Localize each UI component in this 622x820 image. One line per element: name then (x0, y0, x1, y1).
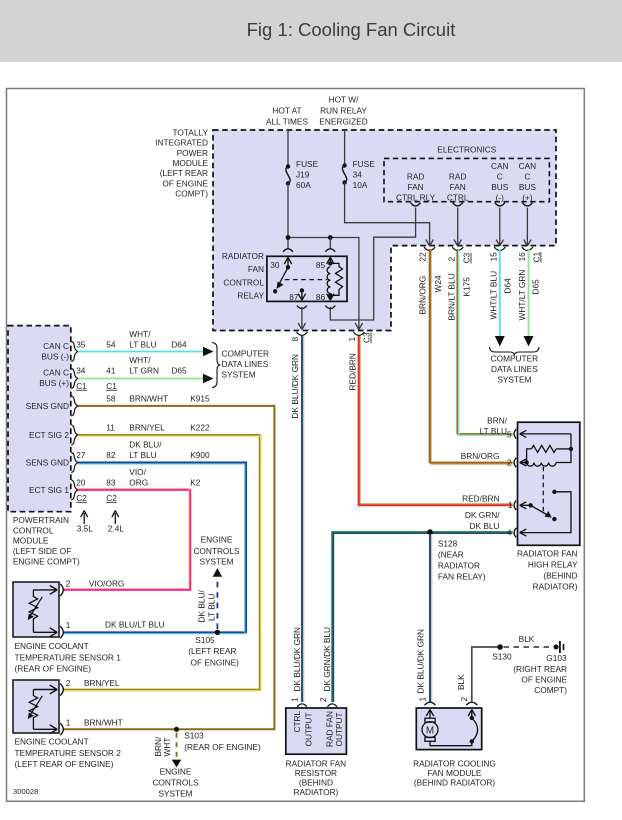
svg-text:1: 1 (290, 697, 300, 702)
svg-text:K2: K2 (190, 477, 201, 487)
svg-text:RADIATOR): RADIATOR) (533, 582, 578, 592)
arrow at exit 1 C3 (355, 322, 362, 330)
svg-text:(BEHIND: (BEHIND (299, 778, 333, 788)
svg-text:LT BLU: LT BLU (480, 426, 507, 436)
svg-text:K900: K900 (190, 450, 210, 460)
relay resistor (parallel) (328, 263, 342, 297)
svg-text:(LEFT REAR: (LEFT REAR (188, 646, 236, 656)
wire BRN/WHT K915 to sensor 2 pin 1 (63, 406, 274, 729)
svg-text:ENGINE: ENGINE (201, 535, 233, 545)
svg-text:58: 58 (106, 393, 116, 403)
svg-text:SYSTEM: SYSTEM (199, 557, 233, 567)
svg-text:DK BLU/DK GRN: DK BLU/DK GRN (292, 627, 302, 692)
brace to computer data lines (left) (212, 343, 221, 388)
svg-text:2.4L: 2.4L (108, 524, 125, 534)
svg-text:DK GRN/DK BLU: DK GRN/DK BLU (322, 627, 332, 692)
svg-text:54: 54 (106, 339, 116, 349)
high relay pin 2 (461, 451, 527, 468)
switch arm 30 (273, 265, 290, 293)
exit labels 8 / 1 C3 (290, 332, 372, 343)
svg-text:RADIATOR FAN: RADIATOR FAN (286, 758, 347, 768)
svg-text:20: 20 (76, 477, 86, 487)
svg-text:BRN/YEL: BRN/YEL (129, 422, 165, 432)
svg-text:(BEHIND RADIATOR): (BEHIND RADIATOR) (414, 778, 496, 788)
high relay contact to pin 4 (520, 490, 571, 533)
PCM pin name labels (26, 341, 70, 495)
wire: CAN C BUS (+) to exit 16 (526, 208, 528, 240)
sensor 1 label (15, 641, 122, 674)
brace to computer data lines (right) (490, 347, 540, 356)
svg-text:82: 82 (106, 450, 116, 460)
sensor 2 thermistor (28, 690, 43, 730)
wire BRN/ORG W24 to high relay pin 2 (430, 249, 513, 464)
svg-text:CTRL: CTRL (292, 710, 302, 732)
svg-text:INTEGRATED: INTEGRATED (155, 138, 208, 148)
wire RED/BRN from exit 1 C3 to high relay pin 1 (348, 336, 513, 505)
svg-text:COMPUTER: COMPUTER (491, 354, 538, 364)
wire WHT/LT BLU D64 (PCM CAN -) (78, 347, 214, 357)
svg-text:POWER: POWER (177, 148, 208, 158)
svg-text:DK BLU/: DK BLU/ (129, 440, 162, 450)
svg-text:FAN: FAN (248, 264, 264, 274)
splice S128 (427, 529, 486, 581)
splice S103 (153, 727, 261, 768)
svg-text:OF ENGINE: OF ENGINE (162, 178, 208, 188)
svg-text:OF ENGINE: OF ENGINE (521, 674, 567, 684)
sensor 2 pin 1 (33, 718, 122, 736)
svg-text:RUN RELAY: RUN RELAY (320, 105, 367, 115)
TIPM (Totally Integrated Power Module) dashed outline (213, 130, 556, 331)
sensor 1 pin 1 (33, 620, 164, 639)
svg-text:C: C (524, 172, 530, 182)
svg-text:S105: S105 (195, 635, 215, 645)
svg-text:FAN: FAN (408, 182, 424, 192)
high relay resistor + coil (524, 434, 573, 466)
wire: RAD FAN CTRL RLY to relay pin 86 (330, 208, 415, 321)
wire WHT/LT BLU D64 (CAN -) (495, 249, 505, 347)
svg-text:ALL TIMES: ALL TIMES (266, 116, 308, 126)
fan internal arc (470, 716, 478, 742)
svg-text:ORG: ORG (129, 477, 148, 487)
title bar (0, 0, 622, 62)
svg-text:D64: D64 (502, 278, 512, 294)
svg-text:FAN MODULE: FAN MODULE (428, 768, 482, 778)
svg-text:DATA LINES: DATA LINES (222, 359, 269, 369)
svg-text:(LEFT REAR OF ENGINE): (LEFT REAR OF ENGINE) (15, 759, 114, 769)
svg-text:S103: S103 (184, 731, 204, 741)
wire BLK dashed to ground (504, 634, 554, 647)
svg-text:8: 8 (290, 337, 300, 342)
svg-text:CTRL: CTRL (447, 193, 469, 203)
svg-text:5: 5 (507, 429, 512, 439)
svg-text:CTRL RLY: CTRL RLY (396, 193, 436, 203)
svg-text:LT GRN: LT GRN (129, 365, 159, 375)
ELECTRONICS dashed box (384, 145, 549, 202)
svg-text:2: 2 (66, 678, 71, 688)
svg-text:87: 87 (289, 292, 299, 302)
connector bumps at ELECTRONICS bottom edge (411, 203, 533, 206)
svg-text:27: 27 (76, 450, 86, 460)
high relay actuator dashed (542, 467, 544, 514)
svg-text:15: 15 (489, 252, 499, 262)
TIPM exit bumps bottom border (296, 332, 364, 335)
sensor 1 pin 2 (33, 578, 124, 596)
resistor internal labels (292, 710, 344, 747)
fuse 34 10A (342, 130, 375, 190)
svg-text:34: 34 (76, 365, 86, 375)
svg-text:C2: C2 (76, 493, 87, 503)
svg-text:HIGH RELAY: HIGH RELAY (528, 560, 578, 570)
svg-text:FAN: FAN (450, 182, 466, 192)
pin 86 (316, 292, 335, 309)
svg-text:BLK: BLK (456, 674, 466, 690)
computer data lines system text (left) (222, 348, 269, 379)
svg-text:30: 30 (270, 260, 280, 270)
wire: CAN C BUS (-) to exit 15 (499, 208, 501, 240)
svg-text:WHT/: WHT/ (129, 329, 151, 339)
svg-text:FAN RELAY): FAN RELAY) (438, 572, 486, 582)
svg-text:MODULE: MODULE (173, 158, 209, 168)
svg-text:3.5L: 3.5L (77, 524, 94, 534)
svg-text:DK BLU: DK BLU (470, 521, 500, 531)
relay dashed actuator line (285, 279, 327, 281)
svg-text:SENS GND: SENS GND (26, 458, 69, 468)
svg-text:BRN/YEL: BRN/YEL (84, 678, 120, 688)
svg-text:CAN C: CAN C (43, 368, 69, 378)
svg-text:S130: S130 (492, 652, 512, 662)
svg-text:K175: K175 (462, 277, 472, 297)
svg-text:22: 22 (417, 252, 427, 262)
rotated labels on resistor wires (318, 627, 332, 702)
svg-text:C1: C1 (532, 252, 542, 263)
svg-text:RADIATOR: RADIATOR (438, 561, 480, 571)
engine coolant temperature sensor 2 box (13, 680, 59, 733)
high relay pin 4 (465, 510, 526, 537)
svg-text:ENGINE COOLANT: ENGINE COOLANT (15, 641, 89, 651)
svg-text:CAN: CAN (491, 161, 509, 171)
svg-text:VIO/: VIO/ (129, 467, 146, 477)
HOT W/ RUN RELAY ENERGIZED label (319, 94, 367, 126)
wire BRN/LT BLU K175 to high relay pin 5 (457, 249, 512, 435)
svg-text:TOTALLY: TOTALLY (172, 127, 208, 137)
svg-text:COMPT): COMPT) (534, 685, 567, 695)
svg-text:DK BLU/DK GRN: DK BLU/DK GRN (416, 629, 426, 694)
svg-text:C1: C1 (106, 381, 117, 391)
ground G103 (513, 641, 567, 695)
fan pin 1 (425, 702, 436, 718)
svg-text:VIO/ORG: VIO/ORG (89, 578, 125, 588)
svg-text:G103: G103 (546, 653, 567, 663)
svg-text:BUS (-): BUS (-) (41, 352, 69, 362)
svg-text:ECT SIG 2: ECT SIG 2 (29, 430, 69, 440)
engine coolant temperature sensor 1 box (13, 582, 59, 637)
svg-text:C3: C3 (362, 332, 372, 343)
svg-text:1: 1 (66, 718, 71, 728)
svg-text:(NEAR: (NEAR (438, 550, 464, 560)
svg-text:DK BLU/LT BLU: DK BLU/LT BLU (105, 620, 165, 630)
wire: fuse 34 to TIPM exit 22 (345, 183, 430, 240)
svg-text:BRN/ORG: BRN/ORG (461, 451, 500, 461)
svg-text:SYSTEM: SYSTEM (158, 788, 192, 798)
relay coil (327, 261, 332, 293)
svg-text:CONTROLS: CONTROLS (152, 777, 199, 787)
svg-text:16: 16 (517, 252, 527, 262)
wire WHT/LT GRN D65 (PCM CAN +) (78, 374, 214, 384)
splice S105 (188, 568, 239, 667)
rotated labels at electronics exits (417, 252, 541, 321)
svg-text:BRN/WHT: BRN/WHT (84, 718, 123, 728)
svg-text:2: 2 (507, 457, 512, 467)
svg-text:RELAY: RELAY (237, 291, 264, 301)
svg-text:Fig 1: Cooling Fan Circuit: Fig 1: Cooling Fan Circuit (247, 19, 456, 40)
high relay box (518, 422, 580, 545)
computer data lines system text (right) (491, 354, 539, 385)
wire DK BLU/LT BLU K900 to sensor 1 pin 1 (63, 463, 246, 634)
svg-text:C1: C1 (76, 381, 87, 391)
svg-text:WHT: WHT (162, 738, 172, 757)
svg-text:(LEFT SIDE OF: (LEFT SIDE OF (13, 546, 71, 556)
fan pin 2 (466, 702, 477, 718)
svg-text:11: 11 (106, 422, 115, 432)
sensor 1 thermistor (28, 590, 43, 632)
svg-text:(-): (-) (496, 193, 505, 203)
svg-text:ENGINE COMPT): ENGINE COMPT) (13, 557, 80, 567)
wire DK BLU/DK GRN S128 to fan module pin 1 (416, 534, 432, 702)
svg-text:(REAR OF ENGINE): (REAR OF ENGINE) (184, 742, 261, 752)
svg-text:DK GRN/: DK GRN/ (465, 510, 500, 520)
svg-text:RAD: RAD (449, 172, 467, 182)
svg-text:1: 1 (347, 337, 357, 342)
svg-text:ELECTRONICS: ELECTRONICS (437, 145, 496, 155)
relay K1 box (267, 256, 347, 301)
svg-text:J19: J19 (296, 170, 310, 180)
svg-text:CAN C: CAN C (43, 341, 69, 351)
svg-text:ENERGIZED: ENERGIZED (319, 116, 367, 126)
svg-text:K915: K915 (190, 393, 210, 403)
svg-text:CONTROL: CONTROL (13, 525, 54, 535)
svg-text:RADIATOR COOLING: RADIATOR COOLING (413, 758, 496, 768)
svg-text:(REAR OF ENGINE): (REAR OF ENGINE) (15, 664, 92, 674)
svg-text:COMPT): COMPT) (175, 189, 208, 199)
svg-text:POWERTRAIN: POWERTRAIN (13, 515, 69, 525)
svg-text:41: 41 (106, 365, 116, 375)
svg-text:RED/BRN: RED/BRN (462, 493, 499, 503)
PCM wire name labels (129, 329, 210, 488)
engine controls system (bottom) (152, 767, 199, 799)
wire: RAD FAN CTRL to exit 2 (457, 208, 459, 240)
svg-text:D65: D65 (171, 365, 187, 375)
svg-text:S128: S128 (438, 539, 458, 549)
svg-text:LT BLU: LT BLU (129, 339, 156, 349)
svg-text:RESISTOR: RESISTOR (295, 768, 337, 778)
relay label (222, 251, 265, 301)
wire: pin 87 to TIPM exit 8 (298, 307, 305, 330)
wire DK BLU/DK GRN from exit 8 to resistor CTRL OUTPUT (290, 336, 304, 702)
svg-text:BUS (+): BUS (+) (39, 378, 69, 388)
svg-text:4: 4 (507, 527, 512, 537)
svg-text:WHT/: WHT/ (129, 355, 151, 365)
svg-text:ENGINE: ENGINE (160, 767, 192, 777)
svg-text:HOT AT: HOT AT (272, 105, 301, 115)
svg-text:86: 86 (316, 292, 326, 302)
svg-text:2: 2 (66, 578, 71, 588)
svg-text:BRN/: BRN/ (487, 415, 508, 425)
pin 30 (270, 249, 293, 270)
engine controls system (middle) (193, 535, 240, 567)
svg-text:K222: K222 (190, 422, 210, 432)
svg-text:LT BLU: LT BLU (206, 594, 216, 621)
high relay pin 1 + switch (462, 493, 556, 521)
svg-text:D65: D65 (531, 279, 541, 295)
svg-text:DATA LINES: DATA LINES (491, 364, 538, 374)
svg-text:BRN/ORG: BRN/ORG (417, 276, 427, 315)
svg-text:ECT SIG 1: ECT SIG 1 (29, 485, 69, 495)
svg-text:OF ENGINE): OF ENGINE) (191, 657, 240, 667)
svg-text:CAN: CAN (519, 161, 537, 171)
svg-text:BRN/LT BLU: BRN/LT BLU (447, 273, 457, 320)
svg-text:BLK: BLK (519, 634, 535, 644)
svg-text:(RIGHT REAR: (RIGHT REAR (513, 664, 567, 674)
svg-text:35: 35 (76, 339, 86, 349)
sensor 2 pin 2 (33, 678, 119, 696)
svg-text:1: 1 (508, 500, 513, 510)
fan module label (413, 758, 496, 787)
svg-text:LT BLU: LT BLU (129, 450, 156, 460)
svg-text:CONTROL: CONTROL (223, 277, 264, 287)
svg-text:83: 83 (106, 477, 116, 487)
svg-text:(+): (+) (522, 193, 533, 203)
PCM connector braces (71, 342, 78, 500)
svg-text:ENGINE COOLANT: ENGINE COOLANT (15, 737, 89, 747)
svg-text:C: C (497, 172, 503, 182)
svg-text:RADIATOR: RADIATOR (222, 251, 264, 261)
resistor pin bumps (297, 704, 337, 707)
svg-text:C3: C3 (462, 253, 472, 264)
svg-text:60A: 60A (296, 180, 311, 190)
svg-text:1: 1 (66, 620, 71, 630)
splice S130 (492, 644, 512, 661)
svg-text:FUSE: FUSE (296, 159, 319, 169)
svg-text:2: 2 (318, 697, 328, 702)
svg-text:TEMPERATURE SENSOR 2: TEMPERATURE SENSOR 2 (15, 748, 122, 758)
svg-text:DK BLU/: DK BLU/ (197, 590, 207, 623)
svg-text:SYSTEM: SYSTEM (497, 375, 531, 385)
svg-text:D64: D64 (171, 339, 187, 349)
svg-text:DK BLU/DK GRN: DK BLU/DK GRN (290, 354, 300, 419)
TIPM label (155, 127, 208, 198)
wire: J19 to relay pin 30 and B+ bus (286, 184, 359, 323)
wire BLK fan pin 2 to S130 (456, 647, 500, 702)
svg-text:OUTPUT: OUTPUT (334, 712, 344, 746)
high relay pin 5 (480, 415, 571, 439)
svg-text:(LEFT REAR: (LEFT REAR (160, 168, 208, 178)
svg-text:BUS: BUS (491, 182, 509, 192)
svg-text:OUTPUT: OUTPUT (304, 712, 314, 746)
svg-text:W24: W24 (433, 275, 443, 292)
fan module box (416, 708, 481, 750)
resistor label (286, 758, 347, 797)
svg-text:BRN/WHT: BRN/WHT (129, 393, 168, 403)
svg-text:C2: C2 (106, 493, 117, 503)
svg-text:WHT/LT GRN: WHT/LT GRN (517, 270, 527, 321)
PCM pin numbers and connector ids (76, 339, 117, 503)
fuse J19 60A (286, 130, 319, 190)
wire DK GRN/DK BLU pin4 to S128 to resistor RAD FAN OUTPUT (332, 532, 512, 702)
wire WHT/LT GRN D65 (CAN +) (524, 249, 534, 347)
PCM dashed box (8, 326, 71, 512)
HOT AT ALL TIMES label (266, 105, 308, 126)
high relay label (517, 549, 578, 592)
svg-text:(BEHIND: (BEHIND (543, 571, 577, 581)
svg-text:10A: 10A (353, 180, 368, 190)
svg-text:RED/BRN: RED/BRN (348, 353, 358, 390)
fan motor M (422, 718, 474, 746)
svg-text:RADIATOR FAN: RADIATOR FAN (517, 549, 578, 559)
svg-text:BUS: BUS (519, 182, 537, 192)
svg-text:WHT/LT BLU: WHT/LT BLU (489, 271, 499, 320)
svg-text:RADIATOR): RADIATOR) (293, 787, 338, 797)
svg-text:300028: 300028 (13, 787, 38, 796)
svg-text:1: 1 (418, 697, 428, 702)
svg-text:HOT W/: HOT W/ (329, 94, 359, 104)
svg-text:34: 34 (353, 170, 363, 180)
wire BRN/YEL K222 to sensor 2 pin 2 (63, 435, 261, 691)
svg-text:FUSE: FUSE (353, 159, 376, 169)
resistor box (286, 708, 347, 754)
svg-text:SYSTEM: SYSTEM (222, 369, 256, 379)
pin 87 (289, 288, 307, 308)
svg-text:COMPUTER: COMPUTER (222, 348, 269, 358)
arrows + bumps at electronics exits (424, 238, 533, 251)
PCM label (13, 515, 80, 567)
svg-text:M: M (426, 726, 434, 737)
sensor 2 label (15, 737, 122, 770)
svg-text:85: 85 (316, 260, 326, 270)
svg-text:MODULE: MODULE (13, 536, 49, 546)
ELECTRONICS pin labels (396, 172, 436, 203)
wire VIO/ORG K2 to sensor 1 pin 2 (63, 489, 190, 590)
svg-text:2: 2 (447, 257, 457, 262)
3.5L / 2.4L arrows (77, 511, 125, 534)
pin 85 (316, 249, 335, 270)
svg-text:RAD FAN: RAD FAN (324, 711, 334, 747)
svg-text:TEMPERATURE SENSOR 1: TEMPERATURE SENSOR 1 (15, 652, 122, 662)
svg-text:2: 2 (459, 697, 469, 702)
svg-text:SENS GND: SENS GND (26, 401, 69, 411)
svg-text:CONTROLS: CONTROLS (193, 546, 240, 556)
svg-text:RAD: RAD (407, 172, 425, 182)
